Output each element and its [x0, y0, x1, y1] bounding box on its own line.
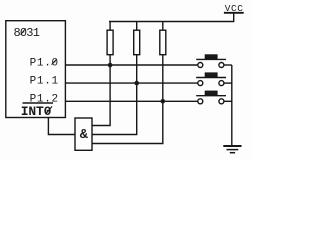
svg-text:&: & [80, 128, 89, 143]
wire VCC rail [109, 13, 234, 22]
node junction P1.0/R1 [108, 63, 113, 68]
switch S3 [198, 99, 203, 104]
resistor R1 [109, 22, 111, 31]
svg-text:P1.0: P1.0 [30, 57, 59, 69]
node junction P1.2/R3 [161, 99, 166, 104]
resistor R3 [162, 22, 164, 31]
wire right rail to ground [231, 65, 233, 145]
svg-text:P1.1: P1.1 [30, 76, 59, 88]
overline of INT0 [23, 102, 54, 104]
IC U1 8031 box [6, 21, 66, 118]
slash of zero in 8031 [21, 28, 26, 34]
wire column3 to AND input [92, 101, 163, 143]
switch S2 [198, 81, 203, 86]
wire INT0 to AND output [48, 118, 75, 135]
wire P1.0 to switch S1 [65, 64, 197, 66]
svg-text:8031: 8031 [14, 26, 40, 40]
wire P1.2 to switch S3 [65, 100, 197, 102]
slash of zero in INT0 [46, 106, 52, 113]
slash of zero in P1.0 [52, 59, 57, 65]
svg-text:INT0: INT0 [21, 104, 52, 119]
ground symbol [223, 145, 241, 147]
power VCC symbol [224, 12, 244, 14]
node junction P1.1/R2 [134, 81, 139, 86]
gate U2 AND box [75, 118, 92, 150]
switch S1 [198, 63, 203, 68]
wire column2 to AND input [92, 83, 137, 134]
wire column1 to AND input [92, 65, 110, 126]
wire P1.1 to switch S2 [65, 82, 197, 84]
svg-text:VCC: VCC [225, 3, 244, 14]
resistor R2 [136, 22, 138, 31]
